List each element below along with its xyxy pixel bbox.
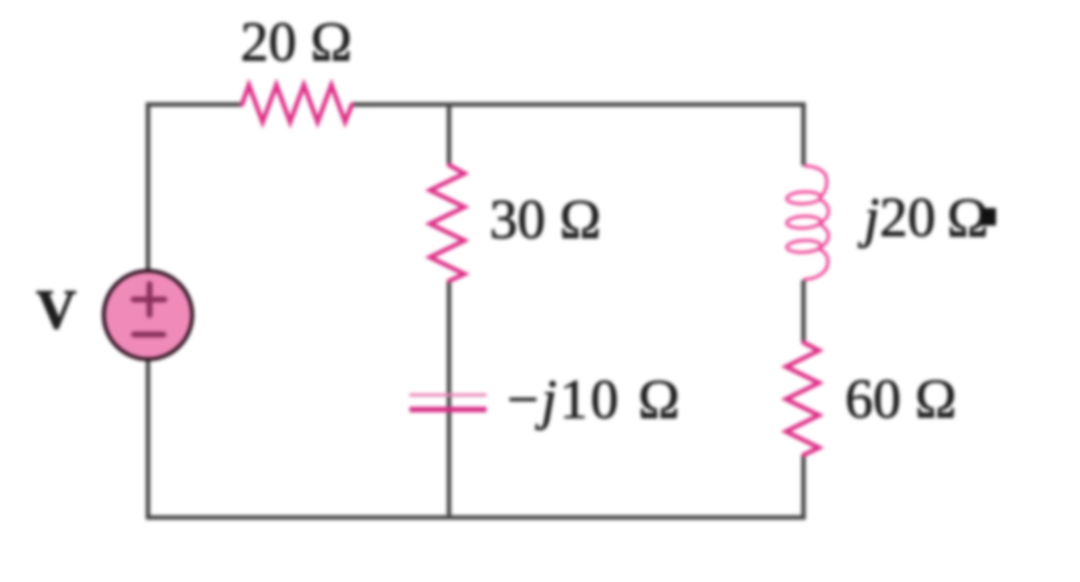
svg-text:30 Ω: 30 Ω — [490, 189, 602, 251]
svg-text:60 Ω: 60 Ω — [845, 369, 957, 431]
svg-text:V: V — [36, 279, 76, 341]
svg-text:j20: j20 — [858, 187, 936, 249]
svg-text:−j10 Ω: −j10 Ω — [507, 369, 683, 431]
svg-text:20 Ω: 20 Ω — [241, 12, 353, 74]
